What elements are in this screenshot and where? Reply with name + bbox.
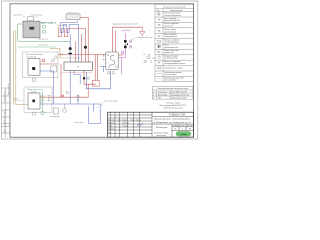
svg-text:циркуляционный: циркуляционный	[164, 46, 178, 49]
svg-text:газ: газ	[40, 102, 42, 104]
svg-text:П-4(8)(У)-1-ТМ: П-4(8)(У)-1-ТМ	[169, 115, 185, 117]
svg-text:Теплый пол: Теплый пол	[57, 24, 67, 27]
svg-text:Лист: Лист	[118, 119, 122, 121]
svg-text:Стадия: Стадия	[173, 125, 179, 127]
svg-text:2: 2	[153, 95, 154, 97]
svg-text:Подп: Подп	[131, 119, 135, 121]
svg-text:Кол: Кол	[113, 119, 116, 121]
svg-text:Пров.: Пров.	[108, 125, 113, 127]
svg-text:смесительный: смесительный	[164, 30, 176, 33]
svg-text:пружинный: пружинный	[164, 51, 173, 54]
svg-text:сетчатый муфтовый: сетчатый муфтовый	[164, 14, 181, 17]
svg-text:ТК2 1/2 (15): ТК2 1/2 (15)	[38, 45, 48, 47]
svg-text:Взам. инв. №: Взам. инв. №	[7, 83, 10, 95]
svg-text:ТК1 3/4 (25): ТК1 3/4 (25)	[38, 39, 48, 41]
svg-text:Аварийный клапан: Аварийный клапан	[138, 36, 153, 39]
svg-text:Подп. и дата: Подп. и дата	[4, 121, 6, 133]
svg-text:теплоноситель: теплоноситель	[164, 74, 177, 76]
svg-text:сервоприводом: сервоприводом	[164, 36, 178, 38]
svg-text:3: 3	[153, 98, 154, 100]
svg-text:Дата: Дата	[137, 119, 141, 121]
svg-text:Бак запаса воды: Бак запаса воды	[104, 101, 118, 103]
svg-text:канализация: канализация	[50, 116, 60, 118]
svg-text:Гидравлический коллектор ГВ: Гидравлический коллектор ГВ	[113, 22, 139, 25]
svg-text:котёл 40 кВт: котёл 40 кВт	[26, 56, 37, 58]
svg-text:Наименование: Наименование	[170, 10, 182, 12]
svg-text:нительный: нительный	[164, 24, 173, 27]
svg-text:котельной: котельной	[157, 134, 166, 137]
svg-text:муфтовый Ду15-50: муфтовый Ду15-50	[164, 19, 180, 22]
svg-text:№: №	[157, 9, 159, 12]
svg-text:Н.контр: Н.контр	[108, 128, 114, 130]
svg-text:Инв.№ подл.: Инв.№ подл.	[3, 110, 6, 122]
svg-text:Условные обозначения: Условные обозначения	[163, 6, 185, 8]
svg-text:Петров: Петров	[123, 125, 129, 127]
svg-text:Московская обл., Чеховский рай: Московская обл., Чеховский район,	[154, 118, 190, 121]
svg-text:Точка слива: Точка слива	[74, 122, 84, 124]
svg-text:Иванов: Иванов	[123, 122, 129, 124]
svg-text:Жилой дом: Жилой дом	[156, 126, 168, 129]
svg-text:РВ 15: РВ 15	[13, 99, 18, 101]
svg-text:Вентиляция: Вентиляция	[158, 95, 168, 97]
svg-text:электроприводом: электроприводом	[164, 42, 179, 44]
svg-text:Котёл ВИРТ-100 кВт: Котёл ВИРТ-100 кВт	[171, 92, 187, 94]
svg-text:д. Манушкино, ул. Раздольная,: д. Манушкино, ул. Раздольная, д. 15	[154, 122, 192, 124]
svg-text:теплоноситель: теплоноситель	[164, 80, 177, 82]
svg-text:Сигнализатор: Сигнализатор	[31, 14, 42, 16]
svg-text:Листов: Листов	[187, 125, 193, 127]
svg-text:автоматический: автоматический	[164, 57, 177, 60]
svg-text:Калорифер КСК 25 кВт: Калорифер КСК 25 кВт	[171, 94, 189, 97]
svg-text:Согласовано: Согласовано	[4, 91, 6, 102]
svg-text:Отопление: Отопление	[158, 92, 167, 94]
svg-text:Разраб: Разраб	[108, 122, 114, 124]
svg-text:ВИРТ 100/45 1.1: ВИРТ 100/45 1.1	[41, 21, 57, 24]
svg-text:Тепло-механические показатели: Тепло-механические показатели схемы	[157, 88, 189, 90]
svg-text:1: 1	[153, 92, 154, 94]
svg-text:выполнены в масштабе: выполнены в масштабе	[163, 108, 183, 110]
svg-text:№док: №док	[123, 118, 128, 121]
svg-text:ГенВик: ГенВик	[180, 134, 189, 136]
svg-text:Датчик СО: Датчик СО	[14, 14, 23, 16]
svg-text:Система вент.: Система вент.	[67, 12, 79, 14]
svg-text:Соединительн. сборка: Соединительн. сборка	[164, 67, 183, 69]
svg-text:электроприводом смесит.: электроприводом смесит.	[164, 63, 186, 65]
svg-text:Утв.: Утв.	[108, 132, 112, 134]
svg-text:Бойлер 200л 30 кВт: Бойлер 200л 30 кВт	[171, 97, 187, 100]
svg-text:Лист: Лист	[181, 125, 185, 127]
